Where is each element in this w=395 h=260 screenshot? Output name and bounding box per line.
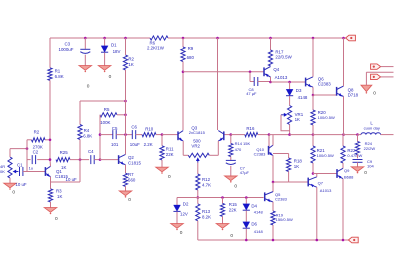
svg-text:100K: 100K	[100, 120, 110, 125]
svg-text:A1013: A1013	[320, 188, 332, 193]
junction on rail at Q3 right collector column	[216, 37, 219, 40]
svg-text:R2: R2	[34, 130, 40, 135]
wire Q7 base row	[289, 181, 309, 183]
wire C5 to C6	[116, 134, 132, 136]
junction R12 R13 node	[197, 196, 200, 199]
svg-text:47µF: 47µF	[240, 170, 250, 175]
svg-text:R10: R10	[145, 126, 154, 131]
svg-text:8.2K: 8.2K	[202, 214, 211, 219]
wire Q8 node to R24 node	[344, 134, 358, 136]
capacitor C2 1u	[32, 155, 35, 164]
wire upper terminal to edge	[381, 66, 394, 68]
wire lower terminal to edge	[381, 76, 394, 78]
wire R10 to R11 node	[156, 134, 162, 136]
svg-text:2.2K: 2.2K	[144, 142, 153, 147]
junction pot top feedback	[26, 147, 29, 150]
wire Q7 emitter down	[316, 187, 318, 240]
wire R21 top stub	[312, 135, 314, 146]
svg-text:D4: D4	[251, 203, 257, 208]
wire Q4 emitter down	[270, 77, 272, 82]
svg-text:1K: 1K	[61, 165, 66, 170]
svg-text:22/0.5W: 22/0.5W	[275, 55, 292, 60]
ground below D2	[171, 224, 183, 231]
resistor R25 1K	[56, 150, 70, 170]
junction on rail at Q8 collector	[342, 37, 345, 40]
wire bias row to D2	[177, 197, 198, 199]
wire Q8 collector up	[343, 38, 345, 86]
wire pot top up	[9, 149, 11, 157]
wire R22 bottom stub	[342, 163, 344, 168]
wire C3 top lead	[84, 38, 86, 49]
svg-text:R25: R25	[60, 150, 69, 155]
ground below R15	[216, 224, 228, 231]
capacitor C9 104	[353, 159, 375, 169]
transistor Q10 C2383	[254, 145, 273, 156]
resistor R16	[245, 126, 258, 137]
resistor R24 22/2W	[355, 141, 375, 154]
wire Q3 right base stub	[224, 134, 231, 136]
diode D6 4148	[243, 221, 264, 233]
svg-text:0: 0	[230, 233, 233, 239]
svg-text:104: 104	[367, 164, 374, 169]
capacitor C8 47uF	[246, 77, 258, 96]
wire R16 to Q10 node	[258, 134, 269, 136]
svg-text:C2383: C2383	[254, 151, 267, 156]
svg-text:1K: 1K	[57, 194, 62, 199]
resistor R17 22/0.5W	[268, 49, 292, 66]
wire Q3 right collector column	[217, 38, 219, 130]
junction Q4 emitter node	[269, 81, 272, 84]
svg-text:C2383: C2383	[318, 82, 331, 87]
wire R21 bottom stub	[312, 163, 314, 174]
capacitor C3 1000uF	[59, 41, 91, 53]
wire C1 to Q1 base	[23, 171, 46, 173]
junction Q1 collector R25	[49, 158, 52, 161]
wire Q6 collector up	[312, 38, 314, 77]
preset VR1 1K	[281, 106, 304, 125]
wire C8 left stub	[250, 81, 254, 83]
junction VR1 bottom node	[288, 133, 291, 136]
svg-text:Q4: Q4	[273, 67, 279, 72]
resistor R15 22K	[220, 202, 237, 216]
wire Q1 collector up	[49, 160, 52, 167]
label 0 below R3 ground	[55, 216, 58, 222]
ground below D1	[98, 66, 110, 73]
svg-text:D1: D1	[111, 42, 117, 47]
svg-text:10uF: 10uF	[130, 142, 140, 147]
junction on rail at Q6 collector	[312, 37, 315, 40]
resistor R3 1K	[48, 188, 62, 202]
wire R4 top corner	[79, 101, 81, 125]
junction C8 tap	[249, 71, 252, 74]
resistor R7 560	[123, 172, 135, 186]
wire bias row right	[198, 197, 264, 199]
svg-text:22/2W: 22/2W	[364, 146, 376, 151]
junction bottom rail R19	[272, 239, 275, 242]
wire Q3 left emitter to VR2	[183, 154, 188, 156]
ground below R7	[119, 191, 131, 198]
svg-text:4148: 4148	[254, 229, 264, 234]
wire Q3 right emitter down	[217, 141, 219, 155]
svg-text:101: 101	[111, 142, 119, 147]
wire D3 to VR1	[289, 96, 291, 105]
ground below C3	[79, 66, 91, 73]
wire R9 bottom to Q3 left collector	[182, 62, 184, 131]
wire Q5 emitter down	[272, 202, 274, 211]
svg-text:0: 0	[364, 170, 367, 176]
svg-text:VR2: VR2	[191, 143, 200, 148]
transistor Q9 B688	[337, 168, 354, 179]
junction C5 column on C4 row	[99, 158, 102, 161]
wire R1 bottom to Q1 collector node	[49, 80, 51, 159]
wire R25 to C4	[70, 159, 89, 161]
resistor R9 680	[181, 46, 195, 62]
transistor Q6 C2383	[306, 77, 332, 88]
label C2 value	[29, 166, 33, 171]
wire C7 bottom stub	[230, 166, 232, 176]
junction bottom rail Q7	[316, 239, 319, 242]
svg-text:Q7: Q7	[318, 180, 324, 185]
svg-text:C3: C3	[65, 41, 71, 46]
junction on rail at R17	[269, 37, 272, 40]
ground below C7	[225, 176, 237, 183]
svg-text:10 uF: 10 uF	[15, 182, 27, 187]
svg-text:R12: R12	[202, 177, 211, 182]
wire R9 top stub	[182, 38, 184, 47]
junction R20 R21 node	[312, 133, 315, 136]
ground below pot	[4, 183, 16, 190]
wire Q8 emitter down	[343, 97, 345, 135]
label 0 below D2 ground	[180, 230, 183, 236]
capacitor C1 10uF input	[15, 163, 27, 188]
wire R18 top	[273, 153, 289, 155]
svg-text:D2: D2	[183, 202, 189, 207]
wire Q2 emitter down	[125, 165, 127, 173]
wire D1 top lead	[104, 38, 106, 46]
wire R19 to bottom rail	[272, 225, 274, 240]
svg-text:1K: 1K	[295, 117, 300, 122]
svg-text:1000uF: 1000uF	[59, 47, 74, 52]
wire C6 to R10	[136, 134, 142, 136]
wire C8 right stub	[258, 81, 271, 83]
wire R7 bottom stub	[125, 186, 127, 191]
resistor R6 in series with top rail	[147, 36, 168, 50]
label 0 right ground	[373, 91, 376, 97]
svg-text:0: 0	[373, 91, 376, 97]
wire D4 top stub	[245, 198, 247, 204]
connector J1 top supply terminal	[346, 35, 356, 41]
svg-text:22K: 22K	[229, 207, 237, 212]
wire R5 right stub	[117, 114, 126, 116]
label C2	[33, 149, 39, 154]
transistor Q3 left of 2xC1815	[178, 126, 198, 142]
wire Q10 base drop	[268, 135, 270, 151]
transistor Q4 A1013	[264, 67, 288, 80]
wire Q3 left emitter down	[182, 141, 184, 155]
svg-text:cuon day: cuon day	[364, 125, 380, 130]
wire R2b top stub	[125, 38, 127, 55]
svg-text:4148: 4148	[298, 95, 308, 100]
label 0 below C9 ground	[364, 170, 367, 176]
wire Q9 base row	[313, 173, 337, 175]
junction R21 bottom node	[312, 172, 315, 175]
svg-text:0: 0	[128, 197, 131, 203]
wire pot bottom	[9, 178, 11, 183]
junction Q8 emitter output node	[342, 133, 345, 136]
wire C5 left stub	[100, 134, 113, 136]
wire R4 bottom to emitter row	[79, 140, 81, 183]
wire R24 node to coil	[358, 134, 362, 136]
inductor L cuon day	[361, 121, 381, 135]
svg-text:6.8K: 6.8K	[83, 133, 92, 138]
resistor R18 1K	[287, 158, 303, 172]
wire R18 bottom stub	[288, 172, 290, 183]
svg-text:R13: R13	[202, 209, 211, 214]
svg-text:C4: C4	[88, 149, 94, 154]
wire R3 top stub	[50, 182, 52, 189]
resistor R22 0.47/5W	[341, 146, 363, 163]
junction Q5 collector node	[272, 181, 275, 184]
svg-text:Q9: Q9	[344, 168, 350, 173]
wire R11 bottom stub	[161, 160, 163, 167]
wire right ground horizontal	[366, 71, 393, 73]
svg-text:C1: C1	[17, 163, 23, 168]
wire Q10 emitter down	[272, 155, 274, 182]
wire right ground drop	[365, 72, 367, 85]
svg-text:680: 680	[187, 55, 195, 60]
wire R17 top stub	[270, 38, 272, 50]
junction D4 top	[245, 196, 248, 199]
wire D2 bottom stub	[176, 212, 178, 224]
transistor Q3 right of 2xC1815	[218, 131, 224, 142]
potentiometer volume pot	[0, 157, 18, 178]
wire VR1 wiper loop	[281, 115, 290, 131]
resistor R11 22K	[160, 146, 174, 160]
junction bottom rail Q9	[342, 239, 345, 242]
label 0 below R15 ground	[230, 233, 233, 239]
svg-text:B688: B688	[344, 175, 354, 180]
junction R2 right	[49, 139, 52, 142]
resistor R5 100K	[100, 107, 117, 125]
resistor R14 470	[229, 141, 251, 157]
wire R12 bottom stub	[197, 190, 199, 198]
wire VR1 node to R20 node	[290, 134, 313, 136]
svg-text:0: 0	[234, 184, 237, 190]
label 0 below R7 ground	[128, 197, 131, 203]
transistor Q5 C2383	[265, 192, 288, 203]
wire R22 top stub	[342, 135, 344, 146]
wire to Q3 left base	[162, 134, 178, 136]
junction Q10 base node	[268, 133, 271, 136]
svg-text:4148: 4148	[254, 210, 264, 215]
svg-text:C2383: C2383	[275, 196, 288, 201]
junction on rail at R9	[182, 37, 185, 40]
ground below R3	[44, 208, 56, 215]
wire top positive rail left segment	[50, 37, 150, 39]
svg-text:0: 0	[55, 216, 58, 222]
wire bottom rail	[198, 239, 349, 241]
svg-text:0: 0	[12, 190, 15, 196]
transistor Q1 C1815	[45, 166, 68, 179]
wire Q8 base wire	[313, 94, 337, 96]
diode D3 4148	[286, 88, 308, 100]
wire R3 bottom stub	[50, 202, 52, 208]
svg-text:6.8K: 6.8K	[55, 74, 64, 79]
ground below C9	[351, 167, 363, 174]
svg-text:22K: 22K	[166, 152, 174, 157]
label 0 below D1 ground	[109, 74, 112, 80]
wire R18 top stub	[288, 154, 290, 159]
svg-text:R3: R3	[56, 188, 62, 193]
svg-text:R16: R16	[246, 126, 255, 131]
wire D1 bottom lead	[104, 53, 106, 66]
wire R24 top stub	[357, 135, 359, 142]
wire R14 node to R16	[231, 134, 245, 136]
svg-text:0K: 0K	[0, 169, 5, 174]
svg-text:100/0.5W: 100/0.5W	[317, 153, 334, 158]
svg-text:C2: C2	[33, 149, 39, 154]
svg-text:D718: D718	[348, 93, 359, 98]
wire D4 to D6	[245, 211, 247, 222]
wire coil to output edge	[381, 134, 394, 136]
wire VR1 bottom stub	[289, 125, 291, 135]
wire R13 bottom corner	[197, 221, 199, 240]
wire R14 top stub	[230, 135, 232, 144]
resistor R4 6.8K	[78, 125, 92, 140]
wire Q1 emitter down	[50, 177, 52, 182]
svg-text:A1013: A1013	[275, 75, 288, 80]
wire R15 top stub	[222, 198, 224, 204]
svg-text:4.7K: 4.7K	[202, 182, 211, 187]
svg-text:0: 0	[87, 83, 90, 89]
connector J3 upper right terminal	[371, 64, 381, 69]
resistor R12 4.7K	[196, 174, 211, 190]
svg-text:18V: 18V	[113, 49, 121, 54]
capacitor C4 10uF	[66, 149, 95, 182]
wire top positive rail right segment	[168, 37, 346, 39]
wire Q4 base wire	[183, 71, 264, 73]
capacitor C6 10uF	[130, 125, 140, 147]
svg-text:150/0.5W: 150/0.5W	[276, 217, 293, 222]
svg-text:R7: R7	[128, 172, 134, 177]
wire VR2 wiper down	[197, 163, 199, 174]
junction R5 right	[124, 114, 127, 117]
ground right input	[361, 85, 372, 93]
ground below R11	[156, 167, 168, 174]
svg-text:470: 470	[235, 147, 242, 152]
wire R18 bottom to Q10 emitter column	[273, 181, 289, 183]
svg-text:R11: R11	[166, 147, 174, 152]
label 0 below C3 ground	[87, 83, 90, 89]
junction Q6 emitter node	[312, 94, 315, 97]
wire bias row y82	[271, 81, 306, 83]
resistor R1 6.8K	[48, 68, 64, 81]
resistor R19 150/0.5W	[271, 211, 293, 225]
resistor R21 100/0.5W	[311, 146, 334, 163]
wire Q9 collector down	[342, 179, 344, 240]
connector J4 lower right terminal	[371, 74, 381, 79]
capacitor C7 47uF	[226, 160, 250, 174]
wire Q10 node to VR1 node	[269, 134, 290, 136]
junction R4 column on R25 row	[79, 158, 82, 161]
wire R20 top stub	[312, 95, 314, 110]
wire Q3 right emitter to VR2	[209, 154, 218, 156]
wire R20 node to Q8 node	[313, 134, 344, 136]
junction R4 wire on Q2 column	[124, 100, 127, 103]
wire C4 to Q2 base	[94, 159, 100, 161]
wire Q6 emitter down	[312, 87, 314, 95]
svg-text:R1: R1	[55, 68, 61, 73]
wire D6 to bottom rail	[245, 229, 247, 240]
wire to Q2 base	[100, 159, 119, 161]
transistor Q2 C1815	[119, 154, 142, 165]
label Q3 value	[189, 130, 206, 135]
wire rail corner down to R1	[49, 38, 51, 68]
resistor R10 2.2K	[142, 126, 156, 146]
svg-text:C5: C5	[112, 126, 118, 131]
svg-text:D3: D3	[296, 88, 302, 93]
junction R14 node	[230, 133, 233, 136]
wire Q1 emitter to R4 bottom	[51, 181, 81, 183]
svg-text:2xC1815: 2xC1815	[189, 130, 206, 135]
wire Q10 collector up	[272, 135, 274, 146]
junction R9 column Q4 base wire	[182, 71, 185, 74]
svg-text:0: 0	[168, 174, 171, 180]
wire R2 270K left stub	[27, 139, 32, 141]
wire R4 top horizontal to Q2 collector column	[80, 100, 126, 102]
wire R20 bottom stub	[312, 125, 314, 135]
svg-text:2.2K/1W: 2.2K/1W	[147, 45, 165, 50]
resistor R2 270K	[32, 130, 46, 150]
svg-text:0: 0	[180, 230, 183, 236]
svg-text:C6: C6	[131, 125, 137, 130]
svg-text:560: 560	[128, 178, 136, 183]
connector J2 bottom supply terminal	[348, 237, 358, 243]
svg-text:R2: R2	[128, 56, 134, 61]
wire C9 bottom stub	[357, 162, 359, 167]
zener diode D1 18V	[101, 42, 120, 54]
wire R13 top stub	[197, 198, 199, 204]
svg-text:10 uF: 10 uF	[66, 177, 78, 182]
junction C5 left	[99, 133, 102, 136]
junction C5 C6 node	[124, 133, 127, 136]
wire C2 left stub	[27, 159, 31, 161]
wire Q5 collector up	[272, 182, 274, 192]
wire Q2 collector column	[125, 70, 127, 154]
svg-text:0: 0	[109, 74, 112, 80]
junction R15 top	[221, 196, 224, 199]
preset VR2 500	[188, 139, 209, 163]
wire pot top to feedback column	[10, 148, 27, 150]
wire R15 bottom stub	[222, 216, 224, 223]
transistor Q7 A1013	[308, 177, 332, 193]
svg-text:D6: D6	[251, 221, 257, 226]
wire R11 top stub	[161, 135, 163, 146]
wire feedback left column	[26, 140, 28, 172]
svg-text:47 µF: 47 µF	[246, 91, 257, 96]
svg-text:12V: 12V	[180, 211, 188, 216]
wire C5 R5 left column	[99, 115, 101, 160]
wire D2 top stub	[176, 198, 178, 206]
junction on rail at C3	[84, 37, 87, 40]
junction on rail at D1	[103, 37, 106, 40]
wire C3 bottom lead	[84, 55, 86, 66]
label 0 below pot ground	[12, 190, 15, 196]
resistor R13 8.2K	[196, 204, 211, 221]
zener diode D2 12V	[173, 202, 189, 217]
svg-text:R9: R9	[188, 46, 194, 51]
resistor R2b 1K	[123, 55, 134, 70]
